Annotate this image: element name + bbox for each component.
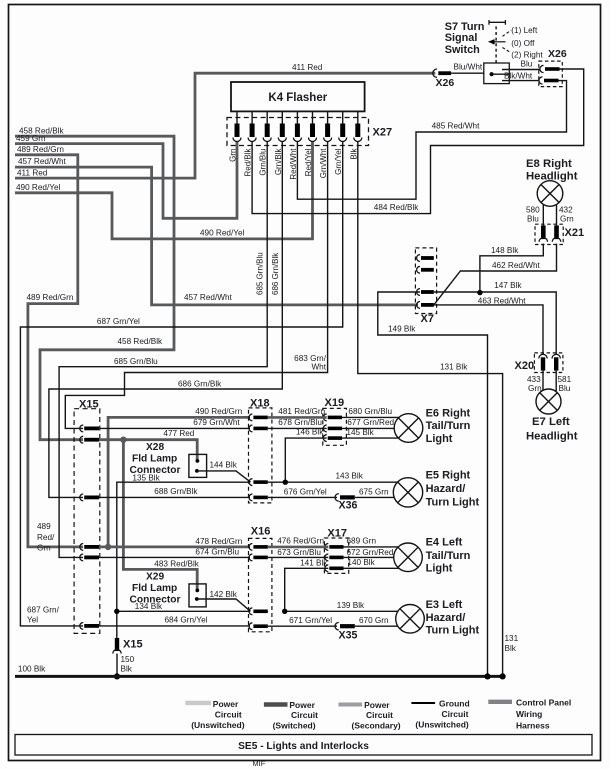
legend sample control panel harness <box>488 700 512 704</box>
svg-text:490 Red/Yel: 490 Red/Yel <box>16 183 60 192</box>
wire 149 Blk X7 pin3 to 131 Blk <box>378 292 488 676</box>
connector X29 lower contact <box>195 597 199 601</box>
svg-text:Light: Light <box>426 563 453 575</box>
svg-text:Blu: Blu <box>521 59 533 68</box>
svg-text:Circuit: Circuit <box>366 710 393 720</box>
wire 687 Grn/Yel X27 pin8 to X15 pin6 <box>20 142 342 626</box>
connector X35 inline <box>335 622 339 630</box>
svg-text:134 Blk: 134 Blk <box>135 602 163 611</box>
svg-text:Signal: Signal <box>445 32 478 44</box>
svg-text:672 Grn/Red: 672 Grn/Red <box>347 548 394 557</box>
wire 671 Grn/Yel X16 pin4 to X35 <box>268 625 337 627</box>
wire 689 Grn X17 to E4 <box>344 546 399 548</box>
svg-text:688 Grn/Blk: 688 Grn/Blk <box>154 487 198 496</box>
wire S7 to X26 Blk/Wht pin <box>502 80 539 82</box>
junction dot 149 Blk on bus <box>484 673 490 679</box>
svg-text:149 Blk: 149 Blk <box>388 324 416 333</box>
svg-text:E6 Right: E6 Right <box>426 407 471 419</box>
wire 489 Red/Grn from stack to X15 pin4 <box>15 155 83 547</box>
connector X15 dashed outline <box>74 409 100 634</box>
svg-text:X20: X20 <box>515 360 535 372</box>
svg-text:142 Blk: 142 Blk <box>210 590 238 599</box>
connector X19 pin 3 <box>323 435 326 442</box>
wire 458 Red/Blk from harness stack to X15 pin2 <box>15 136 174 440</box>
svg-text:490 Red/Grn: 490 Red/Grn <box>195 407 242 416</box>
connector X18 pin 1 <box>249 414 252 421</box>
svg-text:139 Blk: 139 Blk <box>337 601 365 610</box>
connector X15 ground pin <box>115 638 119 651</box>
wire 457 Red/Wht from stack to X7 pin4 <box>15 167 418 305</box>
wire 483 Red/Blk branch to X29 <box>123 440 197 590</box>
svg-text:(2) Right: (2) Right <box>511 51 543 60</box>
wire 672 Grn/Red X17 to E4 <box>344 556 394 558</box>
wire 462 Red/Wht X21 to X7 pin4 <box>434 244 557 305</box>
svg-text:E8 Right: E8 Right <box>526 158 572 170</box>
wire 674 Grn/Blu X15 pin5 to X16 pin2 <box>99 556 250 558</box>
junction dot 147/148 Blk <box>477 290 482 295</box>
connector X19 dashed outline <box>323 408 347 445</box>
svg-text:676 Grn/Yel: 676 Grn/Yel <box>284 487 327 496</box>
wire 148 Blk X21 to 147 junction <box>480 244 543 293</box>
wire 685 Grn/Blu X27 pin3 to X15 pin5 <box>59 142 267 558</box>
svg-text:Fld Lamp: Fld Lamp <box>132 583 177 594</box>
svg-text:489 Red/Grn: 489 Red/Grn <box>17 145 64 154</box>
svg-text:Red/Yel: Red/Yel <box>304 148 313 176</box>
wire 476 Red/Grn X16 to X17 <box>268 546 329 549</box>
svg-text:Turn Light: Turn Light <box>426 625 480 637</box>
legend sample power circuit secondary <box>339 703 363 707</box>
connector X18 pin 4 <box>249 494 252 501</box>
svg-text:Yel: Yel <box>27 616 38 625</box>
svg-text:(1) Left: (1) Left <box>511 26 538 35</box>
connector X15 pin 4 <box>80 544 83 551</box>
svg-text:462 Red/Wht: 462 Red/Wht <box>492 261 541 270</box>
svg-text:490 Red/Yel: 490 Red/Yel <box>200 229 244 238</box>
svg-text:Headlight: Headlight <box>526 431 578 443</box>
lamp E7 left headlight <box>536 389 561 414</box>
connector X7 pin 2 <box>417 266 420 273</box>
svg-text:141 Blk: 141 Blk <box>300 558 328 567</box>
svg-text:478 Red/Grn: 478 Red/Grn <box>195 537 242 546</box>
svg-text:687 Grn/Yel: 687 Grn/Yel <box>97 317 140 326</box>
svg-text:484 Red/Blk: 484 Red/Blk <box>374 203 420 212</box>
wire 144 Blk X28 to X18 pin3 <box>197 471 251 482</box>
wire 683 Grn/Wht X27 pin7 to X15 pin1 <box>65 142 327 429</box>
connector X26 output dashed outline <box>539 61 563 87</box>
svg-text:Harness: Harness <box>516 720 550 730</box>
connector X27 pin 8 (Grn/Yel) <box>339 111 347 141</box>
svg-text:581: 581 <box>558 375 572 384</box>
svg-text:X16: X16 <box>251 526 271 538</box>
svg-text:Power: Power <box>364 700 390 710</box>
svg-text:X36: X36 <box>339 499 358 511</box>
svg-text:Power: Power <box>289 700 315 710</box>
svg-text:Grn: Grn <box>560 214 574 223</box>
svg-text:X29: X29 <box>146 571 164 582</box>
svg-text:689 Grn: 689 Grn <box>347 537 377 546</box>
connector X27 pin 1 (Grn) <box>233 111 241 141</box>
legend sample ground circuit <box>411 702 435 704</box>
switch S7 position fan line 1 <box>503 30 512 36</box>
junction dot 478/490 Red/Grn <box>105 544 111 550</box>
svg-text:Power: Power <box>213 699 239 709</box>
connector X27 pin 9 (Blk) <box>354 111 362 141</box>
svg-text:X7: X7 <box>421 313 434 325</box>
svg-text:Circuit: Circuit <box>291 710 318 720</box>
svg-text:Grn: Grn <box>37 544 51 553</box>
connector X16 pin 4 <box>249 623 252 630</box>
svg-text:Grn/Blk: Grn/Blk <box>274 148 283 176</box>
connector X17 pin 3 <box>325 565 328 572</box>
svg-text:678 Grn/Blu: 678 Grn/Blu <box>278 418 322 427</box>
wire 686 Grn/Blk X27 pin4 to X15 pin3 <box>49 142 282 498</box>
svg-text:E4 Left: E4 Left <box>426 536 463 548</box>
connector X15 pin 1 <box>80 425 83 432</box>
switch S7 actuator stem (dashed) <box>495 25 497 63</box>
svg-text:143 Blk: 143 Blk <box>336 472 364 481</box>
svg-text:131 Blk: 131 Blk <box>440 362 468 371</box>
svg-text:Fld Lamp: Fld Lamp <box>132 454 177 465</box>
connector X28 Fld Lamp box <box>189 454 207 477</box>
svg-text:147 Blk: 147 Blk <box>494 281 522 290</box>
connector X29 Fld Lamp box <box>189 584 206 607</box>
wire 490 Red/Yel from stack to X27 pin6 <box>15 142 313 239</box>
svg-text:148 Blk: 148 Blk <box>491 246 519 255</box>
lamp E8 right headlight <box>537 181 563 207</box>
svg-text:150: 150 <box>121 655 135 664</box>
wire 142 Blk X29 to X16 pin3 <box>197 599 251 611</box>
wire X26 to S7 switch <box>451 72 484 74</box>
connector X19 pin 1 <box>323 414 326 421</box>
connector X7 pin 3 <box>417 289 420 296</box>
svg-text:476 Red/Grn: 476 Red/Grn <box>277 536 324 545</box>
wire 680 Grn/Blu X19 to E6 <box>342 416 399 418</box>
svg-text:Blk: Blk <box>505 644 517 653</box>
svg-text:X26: X26 <box>436 77 455 89</box>
svg-text:457 Red/Wht: 457 Red/Wht <box>184 293 233 302</box>
switch S7 actuator tee bar <box>489 20 505 25</box>
svg-text:Hazard/: Hazard/ <box>426 612 466 624</box>
connector X26 output pin Blu <box>540 65 544 72</box>
svg-text:457 Red/Wht: 457 Red/Wht <box>18 157 67 166</box>
svg-text:458 Red/Blk: 458 Red/Blk <box>118 337 164 346</box>
connector X18 dashed outline <box>249 408 272 503</box>
connector X16 dashed outline <box>249 538 272 631</box>
svg-text:X17: X17 <box>327 527 347 539</box>
wire 131 Blk X27 pin9 to ground bus <box>358 142 503 677</box>
wire 688 Grn/Blk X15 pin3 to X18 pin4 <box>99 496 250 498</box>
connector X36 inline <box>335 494 339 502</box>
svg-text:683 Grn/: 683 Grn/ <box>294 354 327 363</box>
wire 478 Red/Grn X15 pin4 to X16 pin1 <box>99 546 250 549</box>
svg-text:(0) Off: (0) Off <box>511 39 535 48</box>
svg-text:Red/Blk: Red/Blk <box>244 148 253 177</box>
svg-text:Blu: Blu <box>527 214 539 223</box>
svg-text:Blu/Wht: Blu/Wht <box>454 63 483 72</box>
svg-text:(Unswitched): (Unswitched) <box>415 720 469 730</box>
svg-text:411 Red: 411 Red <box>17 168 48 177</box>
connector X20 dashed outline <box>534 353 563 373</box>
connector X15 pin 2 <box>80 436 83 443</box>
junction dot 477/483 <box>120 437 126 443</box>
connector X21 pin1 <box>541 225 546 239</box>
wire 146 Blk X19 pin3 down <box>285 438 326 482</box>
wire 150 Blk to ground bus <box>116 654 118 675</box>
svg-text:E7 Left: E7 Left <box>532 416 570 428</box>
connector X27 pin 3 (Grn/Blu) <box>263 111 271 141</box>
svg-text:Blk: Blk <box>121 665 133 674</box>
connector X7 dashed outline <box>415 248 436 314</box>
connector X19 pin 2 <box>323 425 326 432</box>
wire E8 to X21 pin 580 Blu <box>542 204 544 225</box>
wire 411 Red from stack up to X26 inline connector <box>15 73 435 178</box>
svg-text:Red/: Red/ <box>37 533 55 542</box>
switch S7 arm <box>492 73 510 75</box>
connector X17 dashed outline <box>324 538 348 573</box>
svg-text:144 Blk: 144 Blk <box>210 461 238 470</box>
svg-text:432: 432 <box>559 205 573 214</box>
wire 484/485 X27 pin5 to X26 Blk/Wht contact <box>297 81 566 200</box>
svg-text:673 Grn/Blu: 673 Grn/Blu <box>277 548 321 557</box>
svg-text:S7 Turn: S7 Turn <box>445 21 485 33</box>
svg-text:146 Blk: 146 Blk <box>296 427 324 436</box>
svg-text:686 Grn/Blk: 686 Grn/Blk <box>178 379 222 388</box>
connector X26 inline socket on 411 Red <box>433 69 437 77</box>
svg-text:Tail/Turn: Tail/Turn <box>426 420 471 432</box>
connector X28 lower contact <box>195 469 199 473</box>
svg-text:X35: X35 <box>339 629 358 641</box>
svg-text:Circuit: Circuit <box>215 709 242 719</box>
svg-text:Wiring: Wiring <box>516 709 542 719</box>
lamp E5 right hazard/turn <box>393 478 422 507</box>
switch S7 pole <box>490 72 494 76</box>
svg-text:483 Red/Blk: 483 Red/Blk <box>154 559 200 568</box>
connector X18 pin 2 <box>249 425 252 432</box>
wire 490 Red/Grn branch to X18 pin1 <box>108 417 250 547</box>
svg-text:X19: X19 <box>325 397 345 409</box>
connector X16 pin 3 <box>249 608 252 615</box>
connector X29 upper contact <box>195 589 199 593</box>
legend sample power circuit unswitched <box>185 701 211 705</box>
svg-text:674 Grn/Blu: 674 Grn/Blu <box>195 548 239 557</box>
svg-text:Light: Light <box>426 433 453 445</box>
ground bus 100 Blk <box>15 675 503 678</box>
connector X15 pin 6 <box>80 623 83 630</box>
svg-text:X27: X27 <box>373 127 393 139</box>
junction dot 134/135 Blk <box>114 609 119 614</box>
svg-text:Red/Wht: Red/Wht <box>289 148 298 180</box>
svg-text:145 Blk: 145 Blk <box>346 428 374 437</box>
svg-text:481 Red/Grn: 481 Red/Grn <box>278 407 325 416</box>
svg-text:Circuit: Circuit <box>442 709 469 719</box>
svg-text:Grn/Blu: Grn/Blu <box>259 149 268 176</box>
svg-text:100 Blk: 100 Blk <box>18 665 46 674</box>
svg-text:MIF: MIF <box>253 759 266 768</box>
svg-text:Ground: Ground <box>439 699 470 709</box>
connector X7 pin 4 <box>417 302 420 309</box>
connector X17 pin 1 <box>325 544 328 551</box>
svg-text:X26: X26 <box>548 48 567 60</box>
svg-text:Blu: Blu <box>559 384 571 393</box>
wire 145 Blk X19 to E6 <box>342 437 400 439</box>
connector X21 pin2 <box>554 225 559 239</box>
svg-text:Blk/Wht: Blk/Wht <box>504 72 533 81</box>
wire 679 Grn/Wht X15 pin1 to X18 pin2 <box>99 427 250 429</box>
junction dot 143/146 Blk <box>283 480 288 485</box>
svg-text:679 Grn/Wht: 679 Grn/Wht <box>193 418 240 427</box>
connector X16 pin 2 <box>249 554 252 561</box>
svg-text:686 Grn/Blk: 686 Grn/Blk <box>271 252 280 295</box>
svg-text:477 Red: 477 Red <box>163 429 194 438</box>
svg-text:(Switched): (Switched) <box>273 720 316 730</box>
svg-text:Wht: Wht <box>311 363 326 372</box>
svg-text:X18: X18 <box>250 397 270 409</box>
svg-text:135 Blk: 135 Blk <box>132 473 160 482</box>
connector X15 pin 3 <box>80 494 83 501</box>
svg-text:Turn Light: Turn Light <box>426 496 480 508</box>
connector X28 upper contact <box>196 459 200 463</box>
svg-text:131: 131 <box>505 634 519 643</box>
wire 147 Blk X7 pin3 to X20 <box>434 292 556 354</box>
wire S7 to X26 Blu pin <box>502 69 540 71</box>
svg-text:670 Grn: 670 Grn <box>359 616 389 625</box>
wire 135 Blk to X18 pin3 and ground drop <box>117 482 250 638</box>
wire 684 Grn/Yel X15 pin6 to X16 pin4 <box>99 625 250 627</box>
svg-text:463 Red/Wht: 463 Red/Wht <box>478 296 527 305</box>
title box <box>15 735 592 756</box>
svg-text:580: 580 <box>526 205 540 214</box>
junction dot 150 Blk on bus <box>114 673 120 679</box>
svg-text:K4 Flasher: K4 Flasher <box>268 92 327 104</box>
svg-text:(Secondary): (Secondary) <box>352 720 401 730</box>
svg-text:(Unswitched): (Unswitched) <box>191 720 245 730</box>
wire 676 Grn/Yel X18 pin4 to X36 <box>268 496 337 498</box>
svg-text:489: 489 <box>37 522 51 531</box>
wire X20 to E7 (581 Blu) <box>555 371 557 391</box>
wire 141 Blk X17 pin3 down <box>285 568 329 611</box>
junction dot 131 Blk on bus <box>500 673 506 679</box>
svg-text:SE5 - Lights and Interlocks: SE5 - Lights and Interlocks <box>238 741 369 752</box>
wire 459 Grn from stack to X27 pin1 <box>15 142 237 219</box>
svg-text:687 Grn/: 687 Grn/ <box>27 606 60 615</box>
wire 143 Blk to E5 <box>268 481 398 483</box>
connector X21 dashed outline <box>535 224 563 244</box>
svg-text:Tail/Turn: Tail/Turn <box>426 550 471 562</box>
svg-text:433: 433 <box>527 375 541 384</box>
wire 673 Grn/Blu X16 to X17 <box>268 556 329 558</box>
junction dot 139/141 Blk <box>282 609 287 614</box>
wire 139 Blk to E3 <box>285 610 399 612</box>
lamp E3 left hazard/turn <box>396 605 425 634</box>
connector X18 pin 3 <box>249 479 252 486</box>
svg-text:X21: X21 <box>565 227 585 239</box>
svg-text:X15: X15 <box>123 638 143 650</box>
connector X27 dashed outline <box>227 118 369 146</box>
connector X16 pin 1 <box>249 544 252 551</box>
wire 134 Blk to X16 pin3 <box>117 610 250 612</box>
connector X26 output pin Blk/Wht <box>539 77 543 84</box>
switch S7 motion arrow <box>494 41 506 43</box>
svg-text:E3 Left: E3 Left <box>426 599 463 611</box>
svg-text:Switch: Switch <box>445 44 480 56</box>
svg-text:Control Panel: Control Panel <box>516 698 571 708</box>
wire 463 Red/Wht X7 pin4 to X20 <box>434 305 543 354</box>
svg-text:675 Grn: 675 Grn <box>359 487 389 496</box>
svg-text:680 Grn/Blu: 680 Grn/Blu <box>348 407 392 416</box>
wire 675 Grn X36 to E5 <box>355 496 395 498</box>
wire 678 Grn/Blu X18 to X19 <box>268 427 327 429</box>
switch S7 position fan line 2 <box>503 48 512 53</box>
connector X27 pin 4 (Grn/Blk) <box>278 111 286 141</box>
svg-text:E5 Right: E5 Right <box>426 470 471 482</box>
svg-text:677 Grn/Red: 677 Grn/Red <box>347 418 394 427</box>
svg-text:485 Red/Wht: 485 Red/Wht <box>432 122 481 131</box>
lamp E6 right tail/turn <box>394 414 423 443</box>
wire 481 Red/Grn X18 to X19 <box>268 416 327 419</box>
svg-text:685 Grn/Blu: 685 Grn/Blu <box>114 357 158 366</box>
wire 140 Blk X17 to E4 <box>344 567 400 569</box>
connector X15 pin 5 <box>80 554 83 561</box>
wire 670 Grn X35 to E3 <box>355 625 398 627</box>
svg-text:Hazard/: Hazard/ <box>426 483 466 495</box>
connector X20 pin2 581 Blu <box>552 354 560 358</box>
wire X27 pin2 Red/Blk to X26 Blu contact <box>252 69 584 214</box>
svg-text:Blk: Blk <box>349 148 358 160</box>
connector X7 pin 1 <box>417 255 420 262</box>
svg-text:684 Grn/Yel: 684 Grn/Yel <box>165 616 208 625</box>
wire X20 to E7 (433 Grn) <box>542 371 544 391</box>
svg-text:Grn: Grn <box>229 149 238 162</box>
connector X27 pin 2 (Red/Blk) <box>248 111 256 141</box>
svg-text:Grn/Wht: Grn/Wht <box>319 148 328 179</box>
connector X27 pin 6 (Red/Yel) <box>309 111 317 141</box>
wire E8 to X21 pin 432 Grn <box>556 205 558 226</box>
wire 477 Red X15 pin2 to X28 <box>99 440 197 460</box>
switch S7 body box <box>484 63 510 84</box>
svg-text:459 Grn: 459 Grn <box>16 134 46 143</box>
svg-text:Grn/Yel: Grn/Yel <box>334 148 343 175</box>
svg-text:140 Blk: 140 Blk <box>347 558 375 567</box>
svg-text:X28: X28 <box>146 442 164 453</box>
connector X27 pin 5 (Red/Wht) <box>293 111 301 141</box>
lamp E4 left tail/turn <box>394 543 423 572</box>
connector X20 pin1 433 Grn <box>539 354 547 358</box>
svg-text:489 Red/Grn: 489 Red/Grn <box>27 293 74 302</box>
svg-text:671 Grn/Yel: 671 Grn/Yel <box>289 616 332 625</box>
svg-text:685 Grn/Blu: 685 Grn/Blu <box>256 252 265 295</box>
connector X27 pin 7 (Grn/Wht) <box>324 111 332 141</box>
relay K4 Flasher box <box>231 82 365 111</box>
legend sample power circuit switched <box>264 702 288 706</box>
svg-text:411 Red: 411 Red <box>292 63 323 72</box>
connector X17 pin 2 <box>325 554 328 561</box>
wire 677 Grn/Red X19 to E6 <box>342 427 395 429</box>
